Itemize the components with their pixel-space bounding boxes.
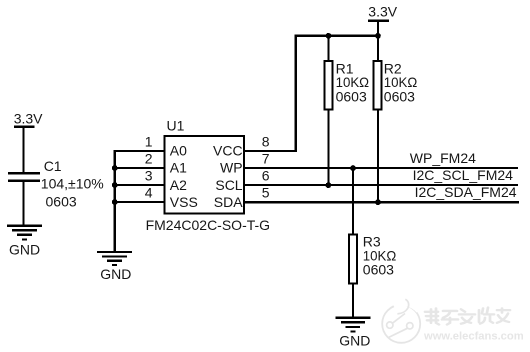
svg-text:FM24C02C-SO-T-G: FM24C02C-SO-T-G bbox=[146, 217, 270, 233]
wire left bus to ground bbox=[114, 150, 116, 251]
svg-text:2: 2 bbox=[145, 151, 153, 167]
pin 8 VCC wire horizontal bbox=[244, 150, 297, 152]
node SCL R1 junction bbox=[326, 182, 332, 188]
svg-text:U1: U1 bbox=[167, 117, 185, 133]
wire R3 vertical bbox=[352, 168, 354, 317]
svg-text:A1: A1 bbox=[170, 160, 187, 176]
svg-text:WP: WP bbox=[220, 160, 243, 176]
power 3.3V (C1 branch) bbox=[14, 111, 43, 129]
pin 2 A1 wire bbox=[114, 167, 165, 169]
watermark logo elecfans bbox=[382, 299, 420, 343]
wire R2 vertical bbox=[377, 21, 379, 203]
IC U1 bbox=[165, 136, 244, 214]
svg-text:1: 1 bbox=[145, 134, 153, 150]
pin 1 A0 wire bbox=[114, 150, 165, 152]
pin 7 WP net wire bbox=[244, 167, 518, 169]
label R3 value bbox=[363, 234, 397, 278]
pin 3 A2 wire bbox=[114, 184, 165, 186]
pin 8 VCC wire vertical riser bbox=[295, 35, 297, 153]
svg-text:A0: A0 bbox=[170, 143, 187, 159]
svg-text:I2C_SCL_FM24: I2C_SCL_FM24 bbox=[413, 167, 514, 183]
svg-text:6: 6 bbox=[262, 168, 270, 184]
power 3.3V (pull-up rail) bbox=[368, 3, 398, 22]
svg-text:3.3V: 3.3V bbox=[368, 3, 397, 19]
svg-text:0603: 0603 bbox=[336, 89, 367, 105]
svg-text:3.3V: 3.3V bbox=[14, 111, 43, 127]
wire 3.3V bar to C1 top bbox=[23, 128, 25, 172]
ground (C1) bbox=[7, 225, 42, 258]
svg-text:3: 3 bbox=[145, 168, 153, 184]
svg-text:VCC: VCC bbox=[213, 143, 243, 159]
svg-text:GND: GND bbox=[339, 333, 370, 349]
watermark chinese brand strokes bbox=[425, 308, 510, 325]
svg-text:7: 7 bbox=[262, 151, 270, 167]
svg-text:C1: C1 bbox=[44, 158, 62, 174]
node rail 3.3V junction bbox=[375, 33, 381, 39]
svg-text:0603: 0603 bbox=[46, 194, 77, 210]
label R1 value bbox=[336, 61, 370, 105]
resistor R2 bbox=[374, 61, 382, 109]
resistor R1 bbox=[324, 61, 332, 109]
wire 3.3V to rail bbox=[377, 21, 379, 36]
ground (R3) bbox=[335, 317, 370, 349]
label C1 value bbox=[41, 158, 104, 209]
wire C1 bottom to ground bbox=[23, 182, 25, 225]
resistor R3 bbox=[349, 235, 357, 284]
node pin2 junction bbox=[112, 165, 118, 171]
capacitor C1 bbox=[8, 172, 40, 182]
svg-text:VSS: VSS bbox=[170, 194, 198, 210]
svg-text:www.elecfans.com: www.elecfans.com bbox=[423, 331, 524, 343]
svg-text:0603: 0603 bbox=[363, 262, 394, 278]
wire VCC rail horizontal bbox=[295, 35, 380, 37]
svg-text:8: 8 bbox=[262, 134, 270, 150]
node pin3 junction bbox=[112, 182, 118, 188]
svg-text:5: 5 bbox=[262, 185, 270, 201]
node WP R3 junction bbox=[350, 165, 356, 171]
svg-text:SCL: SCL bbox=[215, 177, 242, 193]
node rail R1 junction bbox=[326, 33, 332, 39]
pin 5 SDA net wire bbox=[244, 201, 519, 203]
pin 4 VSS wire bbox=[114, 201, 165, 203]
node SDA R2 junction bbox=[375, 199, 381, 205]
svg-text:SDA: SDA bbox=[214, 194, 243, 210]
node pin4 junction bbox=[112, 199, 118, 205]
svg-text:104,±10%: 104,±10% bbox=[41, 176, 104, 192]
label R2 value bbox=[384, 61, 418, 105]
svg-text:0603: 0603 bbox=[384, 89, 415, 105]
svg-text:I2C_SDA_FM24: I2C_SDA_FM24 bbox=[415, 184, 517, 200]
svg-text:GND: GND bbox=[9, 242, 40, 258]
svg-text:GND: GND bbox=[100, 266, 131, 282]
wire R1 vertical bbox=[327, 36, 329, 186]
pin 6 SCL net wire bbox=[244, 184, 518, 186]
svg-text:WP_FM24: WP_FM24 bbox=[410, 150, 476, 166]
svg-text:A2: A2 bbox=[170, 177, 187, 193]
svg-text:4: 4 bbox=[145, 185, 153, 201]
ground (U1 address pins) bbox=[97, 251, 132, 282]
